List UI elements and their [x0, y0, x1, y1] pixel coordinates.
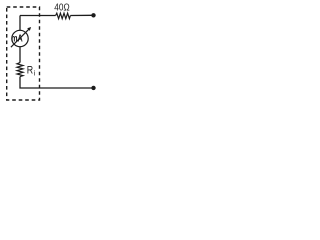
wire: 40ohm resistor to top terminal [70, 14, 92, 16]
milliammeter arrowhead [27, 27, 31, 31]
svg-text:40Ω: 40Ω [54, 2, 70, 14]
wire: Ri bottom to corner and bottom run to terminal [20, 77, 93, 88]
milliammeter arrow shaft [11, 29, 30, 48]
terminal dot B (bottom) [91, 86, 95, 90]
terminal dot A (top) [91, 13, 95, 17]
dashed source enclosure box [7, 7, 40, 100]
wire: top run from corner to 40ohm resistor [20, 15, 56, 17]
milliammeter U1 circle [12, 30, 28, 46]
resistor 40ohm zigzag [56, 13, 71, 19]
wire: meter bottom to resistor Ri top [19, 47, 21, 63]
svg-text:i: i [34, 71, 36, 78]
svg-text:R: R [27, 65, 33, 77]
svg-text:mA: mA [11, 33, 23, 44]
wire: top-left vertical from corner to meter top [19, 16, 21, 31]
resistor Ri zigzag [17, 63, 23, 77]
